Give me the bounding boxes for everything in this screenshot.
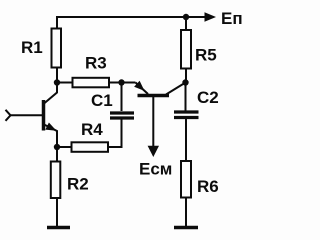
resistor R3 [73, 78, 110, 88]
resistor R4 [72, 142, 109, 152]
wire VT1 emitter to node C [44, 125, 57, 148]
wire node C to R2 [56, 147, 58, 162]
node A junction dot [54, 79, 60, 85]
resistor R5 [181, 30, 191, 69]
wire top supply rail [57, 17, 205, 29]
wire Ecm arrow head [148, 146, 159, 157]
wire VT2 emitter diagonal [136, 83, 149, 95]
node B junction dot [118, 79, 124, 85]
resistor R6 [181, 161, 191, 198]
wire R3 to node B [109, 82, 122, 84]
capacitor C1 [110, 111, 134, 114]
svg-text:R5: R5 [195, 46, 217, 65]
wire VT2 base lead down [152, 97, 154, 146]
ground left [47, 226, 70, 230]
transistor VT2 base bar [138, 94, 170, 98]
svg-text:C1: C1 [91, 91, 113, 110]
wire node A to R3 [57, 82, 73, 84]
svg-text:R2: R2 [67, 175, 89, 194]
node top rail junction [183, 14, 189, 20]
wire R4 to node C [57, 146, 72, 148]
resistor R1 [52, 29, 62, 68]
node D junction dot [182, 79, 188, 85]
wire node B to C1 [121, 83, 123, 112]
wire R2 bottom to ground [56, 198, 58, 227]
wire R6 bottom to ground [185, 198, 187, 228]
wire R5 bottom to node D [185, 69, 188, 111]
transistor VT2 emitter arrow [134, 81, 144, 91]
svg-text:R3: R3 [85, 54, 107, 73]
svg-text:R1: R1 [21, 38, 43, 57]
svg-text:Еп: Еп [221, 9, 243, 28]
ground right [174, 226, 198, 230]
svg-text:R4: R4 [81, 120, 103, 139]
wire node B to VT2 emitter [122, 82, 136, 84]
wire Ep arrow head [205, 12, 217, 21]
node input terminal chevron [6, 110, 11, 121]
svg-text:Есм: Есм [139, 160, 172, 179]
transistor VT1 emitter arrow [45, 123, 56, 131]
wire R1 bottom to node A [56, 68, 58, 83]
transistor VT1 base bar [42, 100, 46, 131]
wire C2 bottom to R6 [185, 119, 187, 161]
svg-text:R6: R6 [197, 177, 219, 196]
resistor R2 [51, 162, 61, 199]
wire R5 top [185, 17, 187, 30]
node C junction dot [54, 144, 60, 150]
svg-text:C2: C2 [197, 88, 219, 107]
capacitor C2 [174, 110, 199, 113]
wire VT1 base lead [10, 114, 42, 116]
wire VT1 collector to node A [44, 83, 57, 104]
wire VT2 collector diagonal [166, 83, 186, 95]
wire C1 bottom to R4 [108, 120, 122, 148]
